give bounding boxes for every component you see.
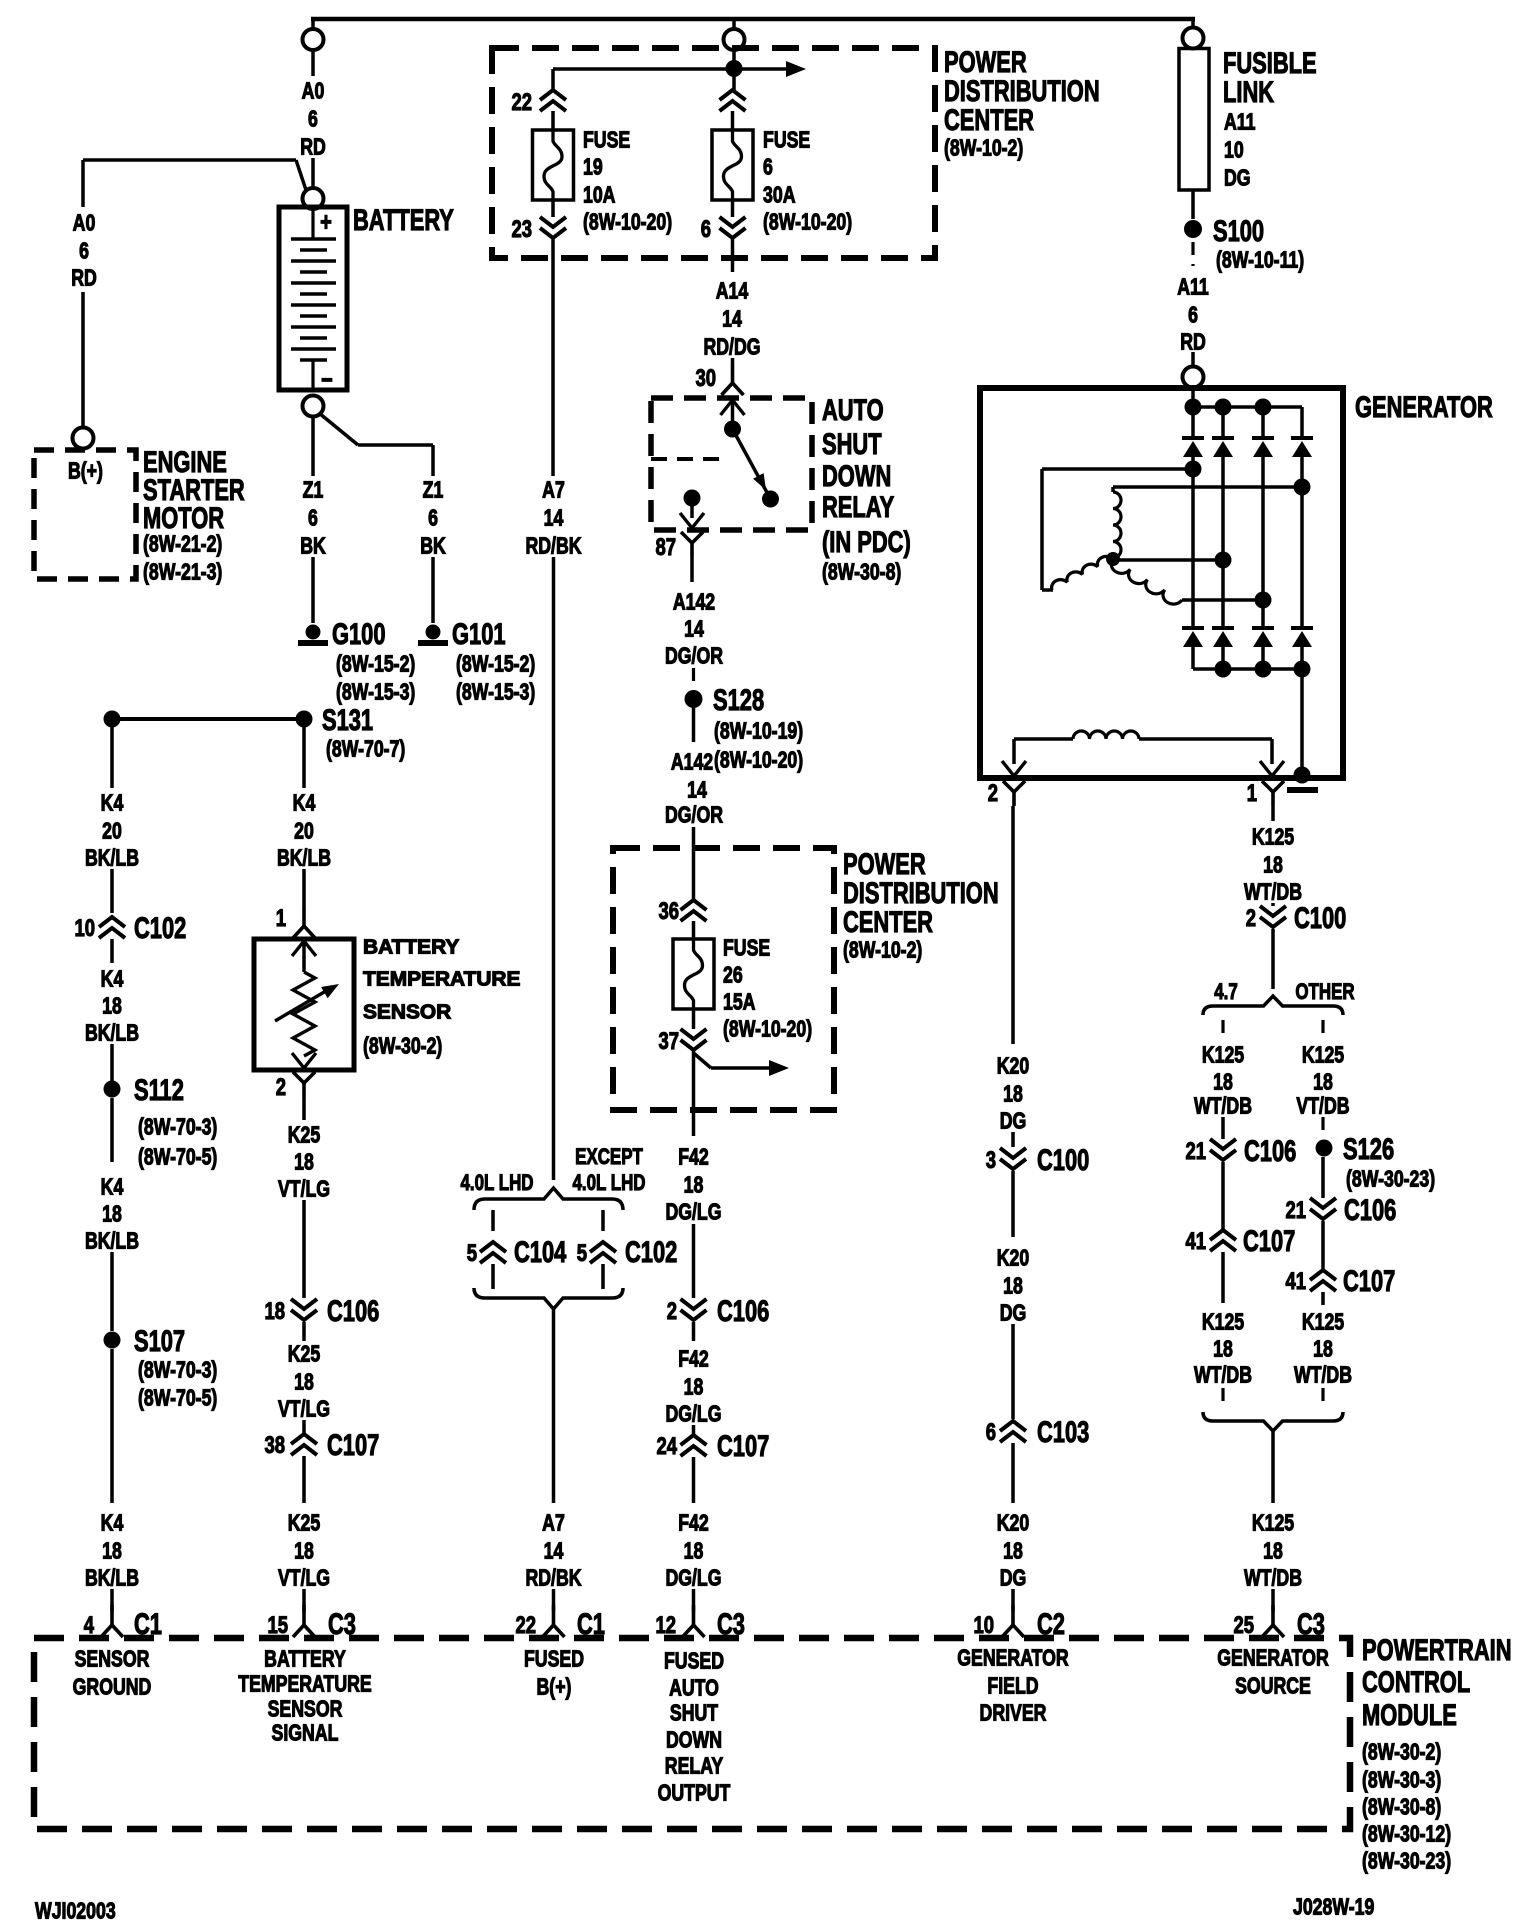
svg-text:K125: K125: [1252, 824, 1294, 850]
svg-text:POWERTRAIN: POWERTRAIN: [1362, 1633, 1512, 1667]
svg-text:BK/LB: BK/LB: [85, 1020, 139, 1046]
svg-text:(8W-15-2): (8W-15-2): [456, 651, 535, 677]
svg-text:6: 6: [308, 106, 318, 132]
svg-text:(8W-70-3): (8W-70-3): [138, 1114, 217, 1140]
svg-text:14: 14: [544, 1538, 564, 1564]
svg-text:GENERATOR: GENERATOR: [957, 1645, 1069, 1671]
svg-text:SHUT: SHUT: [670, 1700, 719, 1726]
svg-text:4.0L LHD: 4.0L LHD: [460, 1171, 533, 1196]
svg-text:A0: A0: [302, 78, 325, 104]
svg-text:K20: K20: [997, 1245, 1029, 1271]
svg-text:2: 2: [1246, 905, 1256, 932]
svg-text:C102: C102: [625, 1235, 677, 1269]
svg-text:(8W-30-2): (8W-30-2): [1362, 1739, 1441, 1765]
svg-text:DG: DG: [1224, 165, 1251, 191]
svg-text:VT/DB: VT/DB: [1296, 1093, 1349, 1119]
svg-text:BK/LB: BK/LB: [85, 845, 139, 871]
svg-text:19: 19: [583, 154, 603, 180]
svg-text:23: 23: [511, 216, 532, 243]
svg-text:(8W-10-20): (8W-10-20): [714, 747, 803, 773]
svg-text:(8W-30-2): (8W-30-2): [363, 1033, 442, 1059]
svg-text:41: 41: [1185, 1228, 1206, 1255]
svg-text:WT/DB: WT/DB: [1294, 1362, 1352, 1388]
svg-text:LINK: LINK: [1223, 75, 1274, 109]
svg-text:DG/LG: DG/LG: [665, 1565, 721, 1591]
svg-text:BATTERY: BATTERY: [363, 936, 460, 959]
svg-text:F42: F42: [678, 1144, 709, 1170]
svg-text:DG/LG: DG/LG: [665, 1401, 721, 1427]
svg-text:K125: K125: [1302, 1042, 1344, 1068]
svg-text:GENERATOR: GENERATOR: [1217, 1645, 1329, 1671]
svg-text:S100: S100: [1213, 213, 1264, 247]
svg-text:DG: DG: [1000, 1300, 1027, 1326]
svg-text:C106: C106: [327, 1294, 379, 1328]
svg-text:K20: K20: [997, 1053, 1029, 1079]
svg-text:OTHER: OTHER: [1295, 980, 1354, 1005]
svg-text:B(+): B(+): [537, 1674, 572, 1700]
svg-text:K25: K25: [288, 1122, 320, 1148]
svg-text:15A: 15A: [723, 989, 756, 1015]
svg-text:21: 21: [1185, 1138, 1206, 1165]
svg-text:Z1: Z1: [303, 477, 324, 503]
svg-text:+: +: [320, 207, 332, 236]
svg-text:TEMPERATURE: TEMPERATURE: [363, 968, 520, 991]
svg-text:26: 26: [723, 962, 743, 988]
svg-text:18: 18: [102, 1201, 122, 1227]
svg-text:CENTER: CENTER: [944, 102, 1034, 136]
svg-text:FUSE: FUSE: [723, 935, 770, 961]
svg-text:14: 14: [687, 777, 707, 803]
svg-text:1: 1: [276, 905, 286, 932]
svg-text:18: 18: [1003, 1538, 1023, 1564]
svg-text:DG/OR: DG/OR: [665, 802, 723, 828]
svg-text:CENTER: CENTER: [843, 905, 933, 939]
svg-text:FUSE: FUSE: [583, 127, 630, 153]
svg-text:C106: C106: [1344, 1193, 1396, 1227]
svg-text:(8W-15-3): (8W-15-3): [336, 679, 415, 705]
svg-text:FIELD: FIELD: [987, 1673, 1038, 1699]
svg-text:OUTPUT: OUTPUT: [658, 1780, 731, 1806]
svg-text:14: 14: [684, 616, 704, 642]
svg-text:FUSE: FUSE: [763, 127, 810, 153]
svg-text:F42: F42: [678, 1346, 709, 1372]
svg-text:A142: A142: [673, 589, 715, 615]
svg-text:MODULE: MODULE: [1362, 1698, 1457, 1732]
svg-text:6: 6: [1188, 302, 1198, 328]
svg-text:VT/LG: VT/LG: [278, 1396, 330, 1422]
svg-text:S126: S126: [1343, 1132, 1394, 1166]
svg-text:K125: K125: [1252, 1510, 1294, 1536]
svg-text:A7: A7: [542, 1510, 565, 1536]
svg-text:BK: BK: [420, 533, 446, 559]
svg-text:C100: C100: [1294, 901, 1346, 935]
svg-text:MOTOR: MOTOR: [143, 501, 224, 535]
svg-text:(8W-30-23): (8W-30-23): [1346, 1166, 1435, 1192]
svg-text:BATTERY: BATTERY: [264, 1646, 346, 1672]
svg-text:15: 15: [267, 1612, 288, 1639]
svg-text:18: 18: [102, 1538, 122, 1564]
svg-text:S131: S131: [322, 703, 373, 737]
svg-text:(8W-70-5): (8W-70-5): [138, 1385, 217, 1411]
svg-text:VT/LG: VT/LG: [278, 1176, 330, 1202]
svg-text:K125: K125: [1202, 1309, 1244, 1335]
svg-text:RD/BK: RD/BK: [525, 533, 581, 559]
svg-text:A0: A0: [73, 210, 96, 236]
svg-text:10: 10: [973, 1612, 994, 1639]
svg-text:14: 14: [544, 505, 564, 531]
svg-text:BATTERY: BATTERY: [353, 202, 454, 236]
svg-text:(8W-30-8): (8W-30-8): [1362, 1794, 1441, 1820]
svg-text:6: 6: [428, 505, 438, 531]
svg-text:41: 41: [1285, 1268, 1306, 1295]
svg-text:EXCEPT: EXCEPT: [575, 1145, 643, 1170]
svg-text:6: 6: [701, 216, 711, 243]
svg-text:18: 18: [264, 1298, 285, 1325]
svg-text:4.7: 4.7: [1214, 980, 1238, 1005]
svg-text:WJI02003: WJI02003: [35, 1898, 116, 1924]
svg-text:18: 18: [684, 1172, 704, 1198]
svg-text:WT/DB: WT/DB: [1244, 1565, 1302, 1591]
svg-text:GROUND: GROUND: [73, 1674, 152, 1700]
svg-text:10A: 10A: [583, 182, 616, 208]
svg-text:K125: K125: [1302, 1309, 1344, 1335]
svg-text:3: 3: [986, 1147, 996, 1174]
svg-text:22: 22: [511, 89, 532, 116]
svg-text:WT/DB: WT/DB: [1194, 1362, 1252, 1388]
svg-text:25: 25: [1233, 1612, 1254, 1639]
svg-text:C106: C106: [1244, 1134, 1296, 1168]
svg-text:10: 10: [74, 915, 95, 942]
svg-text:18: 18: [1313, 1069, 1333, 1095]
svg-text:22: 22: [515, 1612, 536, 1639]
svg-text:BK/LB: BK/LB: [85, 1565, 139, 1591]
svg-text:14: 14: [722, 306, 742, 332]
svg-text:(8W-10-20): (8W-10-20): [723, 1016, 812, 1042]
svg-text:DOWN: DOWN: [666, 1727, 722, 1753]
svg-text:−: −: [321, 365, 333, 394]
svg-text:C103: C103: [1037, 1415, 1089, 1449]
svg-text:(8W-15-3): (8W-15-3): [456, 679, 535, 705]
svg-text:B(+): B(+): [68, 458, 103, 484]
svg-text:4.0L LHD: 4.0L LHD: [572, 1171, 645, 1196]
svg-text:10: 10: [1224, 137, 1244, 163]
svg-text:(8W-21-3): (8W-21-3): [143, 559, 222, 585]
svg-text:RELAY: RELAY: [665, 1753, 724, 1779]
svg-text:A142: A142: [671, 749, 713, 775]
svg-text:K4: K4: [101, 1510, 124, 1536]
svg-text:SOURCE: SOURCE: [1235, 1673, 1311, 1699]
svg-text:RD/BK: RD/BK: [525, 1565, 581, 1591]
svg-text:(8W-10-19): (8W-10-19): [714, 718, 803, 744]
svg-text:FUSED: FUSED: [524, 1646, 584, 1672]
svg-text:(8W-15-2): (8W-15-2): [336, 651, 415, 677]
svg-text:S112: S112: [134, 1073, 184, 1107]
svg-text:G101: G101: [452, 617, 506, 651]
svg-text:A11: A11: [1177, 274, 1209, 300]
svg-text:18: 18: [1263, 1538, 1283, 1564]
svg-text:4: 4: [84, 1612, 94, 1639]
svg-text:SENSOR: SENSOR: [75, 1646, 150, 1672]
svg-text:C107: C107: [1243, 1224, 1295, 1258]
svg-text:(8W-21-2): (8W-21-2): [143, 531, 222, 557]
svg-text:(8W-70-5): (8W-70-5): [138, 1144, 217, 1170]
svg-text:RELAY: RELAY: [822, 490, 895, 524]
svg-text:37: 37: [658, 1028, 679, 1055]
svg-text:18: 18: [1003, 1273, 1023, 1299]
svg-text:DOWN: DOWN: [822, 458, 891, 492]
svg-text:2: 2: [988, 780, 998, 807]
svg-text:C104: C104: [514, 1235, 567, 1269]
svg-text:18: 18: [1003, 1081, 1023, 1107]
svg-text:J028W-19: J028W-19: [1293, 1894, 1374, 1920]
svg-text:FUSED: FUSED: [664, 1648, 724, 1674]
svg-text:SENSOR: SENSOR: [363, 1001, 451, 1024]
svg-text:DG: DG: [1000, 1108, 1027, 1134]
svg-text:6: 6: [986, 1419, 996, 1446]
svg-text:20: 20: [102, 818, 122, 844]
svg-text:C107: C107: [327, 1428, 379, 1462]
svg-text:A14: A14: [716, 278, 749, 304]
svg-text:C106: C106: [717, 1294, 769, 1328]
svg-text:(8W-10-11): (8W-10-11): [1216, 247, 1304, 273]
svg-text:C107: C107: [1343, 1264, 1395, 1298]
svg-text:6: 6: [79, 238, 89, 264]
svg-text:C102: C102: [134, 911, 186, 945]
svg-text:Z1: Z1: [423, 477, 444, 503]
svg-text:AUTO: AUTO: [822, 392, 884, 426]
svg-text:RD: RD: [71, 265, 97, 291]
svg-text:K25: K25: [288, 1510, 320, 1536]
svg-text:(8W-30-8): (8W-30-8): [822, 559, 901, 585]
svg-text:S107: S107: [134, 1324, 185, 1358]
svg-text:6: 6: [308, 505, 318, 531]
svg-text:BK/LB: BK/LB: [277, 845, 331, 871]
svg-text:18: 18: [294, 1369, 314, 1395]
svg-text:RD/DG: RD/DG: [703, 334, 760, 360]
svg-text:C100: C100: [1037, 1143, 1089, 1177]
svg-text:1: 1: [1247, 780, 1257, 807]
svg-text:18: 18: [684, 1538, 704, 1564]
svg-text:2: 2: [276, 1074, 286, 1101]
svg-text:A7: A7: [542, 477, 565, 503]
svg-text:5: 5: [467, 1240, 477, 1267]
svg-text:18: 18: [684, 1374, 704, 1400]
svg-text:5: 5: [577, 1240, 587, 1267]
svg-text:RD: RD: [1180, 329, 1206, 355]
svg-text:(8W-10-2): (8W-10-2): [944, 135, 1023, 161]
svg-text:A11: A11: [1224, 109, 1256, 135]
svg-text:(8W-70-3): (8W-70-3): [138, 1357, 217, 1383]
svg-text:G100: G100: [332, 617, 386, 651]
svg-text:SHUT: SHUT: [822, 426, 882, 460]
svg-text:TEMPERATURE: TEMPERATURE: [238, 1671, 371, 1697]
svg-text:87: 87: [655, 534, 676, 561]
svg-text:(8W-30-23): (8W-30-23): [1362, 1848, 1451, 1874]
svg-text:18: 18: [1313, 1336, 1333, 1362]
svg-text:DRIVER: DRIVER: [980, 1700, 1047, 1726]
svg-text:WT/DB: WT/DB: [1194, 1093, 1252, 1119]
svg-text:18: 18: [294, 1149, 314, 1175]
svg-text:20: 20: [294, 818, 314, 844]
svg-text:(8W-10-2): (8W-10-2): [843, 937, 922, 963]
svg-text:CONTROL: CONTROL: [1362, 1665, 1470, 1699]
svg-text:18: 18: [102, 993, 122, 1019]
svg-text:12: 12: [655, 1612, 676, 1639]
svg-text:(8W-10-20): (8W-10-20): [763, 209, 852, 235]
svg-text:RD: RD: [300, 134, 326, 160]
svg-text:(8W-10-20): (8W-10-20): [583, 209, 672, 235]
svg-text:VT/LG: VT/LG: [278, 1565, 330, 1591]
svg-text:K4: K4: [101, 966, 124, 992]
svg-text:K4: K4: [101, 790, 124, 816]
svg-text:BK/LB: BK/LB: [85, 1228, 139, 1254]
svg-text:(IN PDC): (IN PDC): [822, 525, 911, 559]
svg-text:DG/LG: DG/LG: [665, 1199, 721, 1225]
svg-text:DG/OR: DG/OR: [665, 643, 723, 669]
svg-text:SENSOR: SENSOR: [268, 1696, 343, 1722]
svg-text:BK: BK: [300, 533, 326, 559]
svg-text:36: 36: [658, 898, 679, 925]
svg-text:6: 6: [763, 154, 773, 180]
svg-text:C107: C107: [717, 1429, 769, 1463]
svg-text:S128: S128: [713, 683, 764, 717]
svg-text:2: 2: [667, 1298, 677, 1325]
svg-text:30: 30: [695, 365, 716, 392]
svg-text:K4: K4: [101, 1174, 124, 1200]
svg-text:K4: K4: [293, 790, 316, 816]
svg-text:18: 18: [294, 1538, 314, 1564]
svg-text:(8W-30-3): (8W-30-3): [1362, 1767, 1441, 1793]
svg-text:K125: K125: [1202, 1042, 1244, 1068]
svg-text:(8W-70-7): (8W-70-7): [326, 736, 405, 762]
svg-text:38: 38: [264, 1432, 285, 1459]
svg-text:GENERATOR: GENERATOR: [1355, 389, 1493, 423]
svg-text:SIGNAL: SIGNAL: [272, 1720, 339, 1746]
svg-text:AUTO: AUTO: [669, 1675, 719, 1701]
svg-text:(8W-30-12): (8W-30-12): [1362, 1821, 1451, 1847]
svg-text:21: 21: [1285, 1197, 1306, 1224]
svg-text:18: 18: [1263, 852, 1283, 878]
svg-text:F42: F42: [678, 1510, 709, 1536]
svg-text:K25: K25: [288, 1341, 320, 1367]
svg-text:18: 18: [1213, 1069, 1233, 1095]
svg-text:K20: K20: [997, 1510, 1029, 1536]
svg-text:18: 18: [1213, 1336, 1233, 1362]
svg-text:30A: 30A: [763, 182, 796, 208]
svg-text:DG: DG: [1000, 1565, 1027, 1591]
svg-text:24: 24: [656, 1433, 677, 1460]
